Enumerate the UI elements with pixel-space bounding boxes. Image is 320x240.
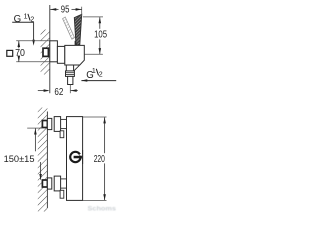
svg-text:1: 1 [92,68,96,75]
svg-text:2: 2 [99,72,103,79]
svg-text:62: 62 [54,87,63,98]
svg-text:70: 70 [15,48,25,59]
svg-text:150±15: 150±15 [4,153,35,164]
svg-text:1: 1 [24,13,28,20]
svg-text:220: 220 [94,154,106,165]
svg-text:Schoms: Schoms [88,206,117,213]
svg-text:105: 105 [94,30,107,41]
svg-text:G: G [14,14,22,25]
svg-text:2: 2 [30,17,34,24]
svg-text:95: 95 [61,5,70,16]
